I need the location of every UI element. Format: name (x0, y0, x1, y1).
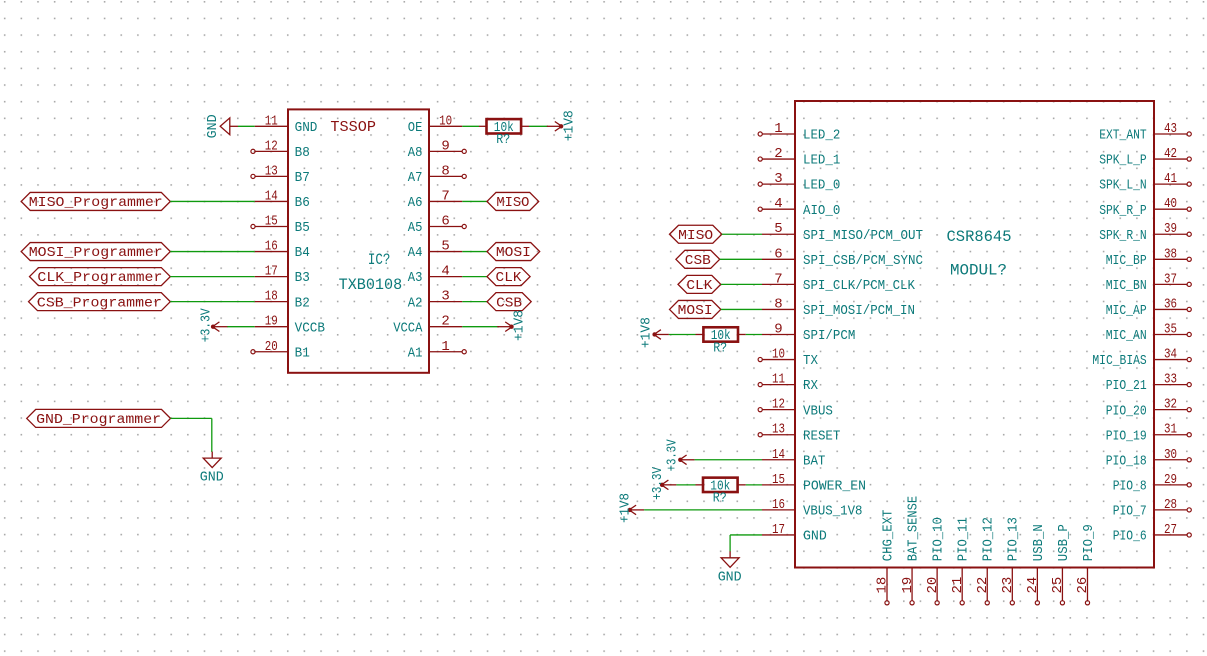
svg-text:22: 22 (975, 577, 991, 594)
svg-text:PIO_8: PIO_8 (1113, 478, 1147, 494)
svg-text:+1V8: +1V8 (639, 317, 655, 348)
svg-text:+1V8: +1V8 (617, 493, 633, 523)
svg-text:MIC_BP: MIC_BP (1106, 253, 1147, 269)
svg-text:3: 3 (441, 289, 449, 305)
svg-text:MOSI: MOSI (678, 303, 713, 319)
svg-text:5: 5 (441, 239, 449, 255)
svg-text:A8: A8 (408, 145, 423, 161)
svg-text:A6: A6 (408, 195, 423, 211)
svg-text:BAT_SENSE: BAT_SENSE (905, 496, 921, 561)
svg-text:13: 13 (772, 422, 785, 438)
svg-text:CSB_Programmer: CSB_Programmer (37, 295, 162, 311)
svg-text:15: 15 (772, 472, 785, 488)
svg-text:MISO: MISO (496, 195, 529, 211)
svg-text:11: 11 (772, 372, 785, 388)
svg-text:VCCA: VCCA (393, 320, 423, 336)
svg-text:PIO_18: PIO_18 (1106, 453, 1147, 469)
svg-text:A1: A1 (408, 345, 423, 361)
svg-text:+3.3V: +3.3V (199, 308, 215, 342)
svg-text:34: 34 (1164, 347, 1177, 363)
svg-text:PIO_7: PIO_7 (1113, 504, 1147, 520)
svg-text:27: 27 (1164, 522, 1177, 538)
svg-text:MIC_AN: MIC_AN (1106, 328, 1147, 344)
svg-text:41: 41 (1164, 171, 1177, 187)
svg-text:9: 9 (774, 321, 782, 337)
svg-text:19: 19 (900, 577, 916, 594)
svg-text:A7: A7 (408, 170, 423, 186)
svg-text:TX: TX (803, 353, 819, 369)
svg-text:AIO_0: AIO_0 (803, 203, 840, 219)
svg-text:R?: R? (713, 340, 727, 356)
svg-text:B4: B4 (295, 245, 310, 261)
svg-text:+1V8: +1V8 (562, 110, 578, 141)
svg-text:SPK_R_P: SPK_R_P (1099, 203, 1147, 219)
svg-text:CLK: CLK (686, 278, 713, 294)
svg-text:CLK: CLK (496, 270, 523, 286)
svg-text:A5: A5 (408, 220, 423, 236)
svg-text:16: 16 (772, 497, 785, 513)
svg-text:PIO_11: PIO_11 (956, 517, 972, 561)
svg-text:3: 3 (774, 171, 782, 187)
svg-text:PIO_10: PIO_10 (931, 517, 947, 561)
svg-text:32: 32 (1164, 397, 1177, 413)
svg-text:CSB: CSB (496, 295, 522, 311)
svg-text:7: 7 (774, 271, 782, 287)
svg-text:PIO_21: PIO_21 (1106, 378, 1147, 394)
svg-text:USB_P: USB_P (1056, 524, 1072, 561)
svg-text:15: 15 (265, 214, 278, 230)
svg-text:17: 17 (772, 522, 785, 538)
svg-text:37: 37 (1164, 271, 1177, 287)
svg-text:B6: B6 (295, 195, 310, 211)
svg-text:+1V8: +1V8 (511, 310, 527, 341)
svg-text:38: 38 (1164, 246, 1177, 262)
svg-text:GND: GND (718, 569, 742, 585)
svg-text:14: 14 (265, 188, 278, 204)
svg-text:35: 35 (1164, 321, 1177, 337)
svg-text:28: 28 (1164, 497, 1177, 513)
svg-text:GND_Programmer: GND_Programmer (36, 412, 161, 428)
svg-text:OE: OE (408, 120, 423, 136)
svg-text:IC?: IC? (368, 251, 390, 269)
svg-text:33: 33 (1164, 372, 1177, 388)
svg-text:B7: B7 (295, 170, 310, 186)
svg-text:PIO_19: PIO_19 (1106, 428, 1147, 444)
svg-text:MIC_BIAS: MIC_BIAS (1092, 353, 1146, 369)
svg-text:2: 2 (441, 314, 449, 330)
svg-text:B3: B3 (295, 270, 310, 286)
svg-text:10: 10 (772, 347, 785, 363)
svg-text:PIO_20: PIO_20 (1106, 403, 1147, 419)
svg-text:8: 8 (441, 163, 449, 179)
svg-text:25: 25 (1050, 577, 1066, 594)
svg-text:CSR8645: CSR8645 (947, 228, 1012, 246)
svg-text:LED_0: LED_0 (803, 178, 840, 194)
svg-text:11: 11 (265, 113, 278, 129)
svg-text:MISO: MISO (678, 228, 713, 244)
svg-text:VCCB: VCCB (295, 320, 325, 336)
svg-text:BAT: BAT (803, 453, 825, 469)
svg-text:10: 10 (439, 113, 452, 129)
svg-text:+3.3V: +3.3V (650, 466, 666, 499)
svg-text:42: 42 (1164, 146, 1177, 162)
svg-text:MODUL?: MODUL? (950, 261, 1007, 279)
svg-text:RESET: RESET (803, 428, 840, 444)
svg-text:26: 26 (1075, 577, 1091, 594)
svg-text:31: 31 (1164, 422, 1177, 438)
svg-text:CLK_Programmer: CLK_Programmer (37, 270, 162, 286)
svg-text:2: 2 (774, 146, 782, 162)
svg-text:20: 20 (925, 577, 941, 594)
svg-text:PIO_13: PIO_13 (1006, 517, 1022, 561)
svg-text:9: 9 (441, 138, 449, 154)
svg-text:GND: GND (803, 529, 827, 545)
svg-text:B2: B2 (295, 295, 310, 311)
svg-text:1: 1 (774, 121, 782, 137)
svg-text:1: 1 (441, 339, 449, 355)
svg-text:SPK_L_P: SPK_L_P (1099, 153, 1147, 169)
svg-text:40: 40 (1164, 196, 1177, 212)
svg-text:21: 21 (950, 577, 966, 594)
svg-text:SPI_CLK/PCM_CLK: SPI_CLK/PCM_CLK (803, 278, 916, 294)
svg-text:PIO_9: PIO_9 (1081, 524, 1097, 561)
svg-text:5: 5 (774, 221, 782, 237)
svg-text:A2: A2 (408, 295, 423, 311)
svg-text:GND: GND (205, 114, 221, 138)
svg-text:19: 19 (265, 314, 278, 330)
svg-text:GND: GND (200, 470, 224, 486)
svg-text:20: 20 (265, 339, 278, 355)
svg-text:SPI/PCM: SPI/PCM (803, 328, 855, 344)
svg-text:RX: RX (803, 378, 819, 394)
svg-text:8: 8 (774, 296, 782, 312)
svg-text:30: 30 (1164, 447, 1177, 463)
svg-text:MIC_AP: MIC_AP (1106, 303, 1147, 319)
svg-text:+3.3V: +3.3V (664, 439, 680, 471)
svg-text:SPK_R_N: SPK_R_N (1099, 228, 1147, 244)
svg-text:18: 18 (265, 289, 278, 305)
svg-text:R?: R? (496, 132, 510, 148)
svg-text:B5: B5 (295, 220, 310, 236)
svg-text:A3: A3 (408, 270, 423, 286)
svg-text:17: 17 (265, 264, 278, 280)
svg-text:6: 6 (774, 246, 782, 262)
svg-text:B1: B1 (295, 345, 310, 361)
svg-text:USB_N: USB_N (1031, 524, 1047, 561)
svg-text:4: 4 (441, 264, 449, 280)
svg-text:MOSI_Programmer: MOSI_Programmer (29, 245, 163, 261)
svg-text:VBUS_1V8: VBUS_1V8 (803, 504, 863, 520)
svg-text:43: 43 (1164, 121, 1177, 137)
svg-text:LED_2: LED_2 (803, 128, 840, 144)
svg-text:B8: B8 (295, 145, 310, 161)
svg-text:A4: A4 (408, 245, 423, 261)
svg-text:TSSOP: TSSOP (330, 119, 376, 136)
svg-text:MIC_BN: MIC_BN (1106, 278, 1147, 294)
svg-text:12: 12 (265, 138, 278, 154)
svg-text:16: 16 (265, 239, 278, 255)
svg-text:23: 23 (1000, 577, 1016, 594)
svg-text:LED_1: LED_1 (803, 153, 840, 169)
svg-text:R?: R? (713, 491, 727, 507)
svg-text:24: 24 (1025, 577, 1041, 594)
svg-text:EXT_ANT: EXT_ANT (1099, 128, 1147, 144)
svg-text:29: 29 (1164, 472, 1177, 488)
svg-text:PIO_6: PIO_6 (1113, 529, 1147, 545)
svg-text:SPI_MISO/PCM_OUT: SPI_MISO/PCM_OUT (803, 228, 923, 244)
svg-text:TXB0108: TXB0108 (339, 276, 403, 294)
svg-text:VBUS: VBUS (803, 403, 833, 419)
svg-text:GND: GND (295, 120, 318, 136)
svg-text:4: 4 (774, 196, 782, 212)
svg-text:14: 14 (772, 447, 785, 463)
svg-text:POWER_EN: POWER_EN (803, 478, 866, 494)
svg-text:18: 18 (875, 577, 891, 594)
svg-text:PIO_12: PIO_12 (981, 517, 997, 561)
svg-text:CHG_EXT: CHG_EXT (880, 510, 896, 562)
svg-text:12: 12 (772, 397, 785, 413)
svg-text:SPI_MOSI/PCM_IN: SPI_MOSI/PCM_IN (803, 303, 915, 319)
svg-text:13: 13 (265, 163, 278, 179)
svg-text:MOSI: MOSI (496, 245, 531, 261)
svg-text:7: 7 (441, 188, 449, 204)
svg-text:SPI_CSB/PCM_SYNC: SPI_CSB/PCM_SYNC (803, 253, 923, 269)
svg-text:SPK_L_N: SPK_L_N (1099, 178, 1147, 194)
svg-text:CSB: CSB (685, 253, 711, 269)
svg-text:36: 36 (1164, 296, 1177, 312)
svg-text:39: 39 (1164, 221, 1177, 237)
svg-text:6: 6 (441, 214, 449, 230)
svg-text:MISO_Programmer: MISO_Programmer (29, 195, 163, 211)
